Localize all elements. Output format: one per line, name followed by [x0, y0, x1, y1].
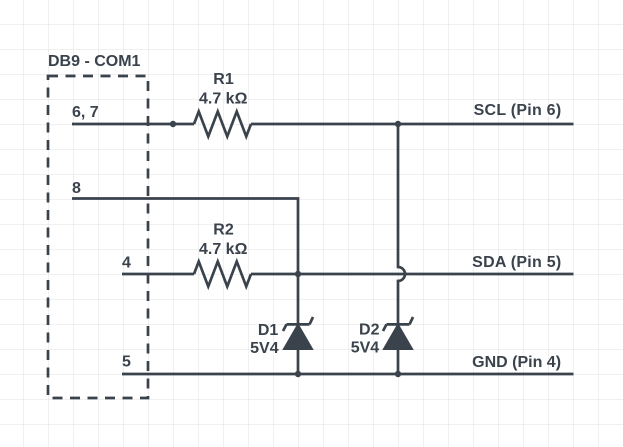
svg-text:4.7 kΩ: 4.7 kΩ	[199, 241, 248, 258]
svg-text:4.7 kΩ: 4.7 kΩ	[199, 91, 248, 108]
svg-text:8: 8	[72, 180, 81, 197]
zener diode D1	[283, 317, 313, 331]
junction node on GND at D2	[395, 371, 401, 377]
wire SCL from pin 6,7	[72, 123, 194, 126]
zener diode D2	[383, 317, 413, 331]
wire from pin 8	[72, 199, 298, 275]
resistor R1	[194, 112, 251, 137]
svg-text:GND (Pin 4): GND (Pin 4)	[472, 354, 561, 371]
svg-text:SDA (Pin 5): SDA (Pin 5)	[472, 254, 561, 271]
svg-text:5V4: 5V4	[351, 339, 380, 356]
wire SCL to output	[251, 123, 574, 126]
D1 branch vertical wire	[297, 274, 300, 324]
svg-text:D2: D2	[359, 322, 380, 339]
junction node on SCL at R1 input	[170, 121, 176, 127]
svg-text:5V4: 5V4	[250, 340, 279, 357]
svg-text:4: 4	[122, 254, 131, 271]
svg-text:D1: D1	[258, 322, 279, 339]
wire GND from pin 5	[122, 373, 574, 376]
DB9 connector dashed box	[48, 76, 148, 398]
junction node on SDA at D1 branch	[295, 271, 301, 277]
wire SDA to output	[251, 273, 574, 276]
junction node on GND at D1	[295, 371, 301, 377]
svg-text:R2: R2	[213, 221, 234, 238]
wire SDA from pin 4	[122, 273, 194, 276]
svg-text:R1: R1	[213, 71, 234, 88]
resistor R2	[194, 262, 251, 287]
svg-text:SCL (Pin 6): SCL (Pin 6)	[474, 102, 562, 119]
svg-text:DB9 - COM1: DB9 - COM1	[48, 53, 141, 70]
svg-text:6, 7: 6, 7	[72, 104, 99, 121]
svg-text:5: 5	[122, 353, 131, 370]
junction node on SCL at D2 branch	[395, 121, 401, 127]
D2 branch vertical wire with hop over SDA	[398, 124, 405, 324]
